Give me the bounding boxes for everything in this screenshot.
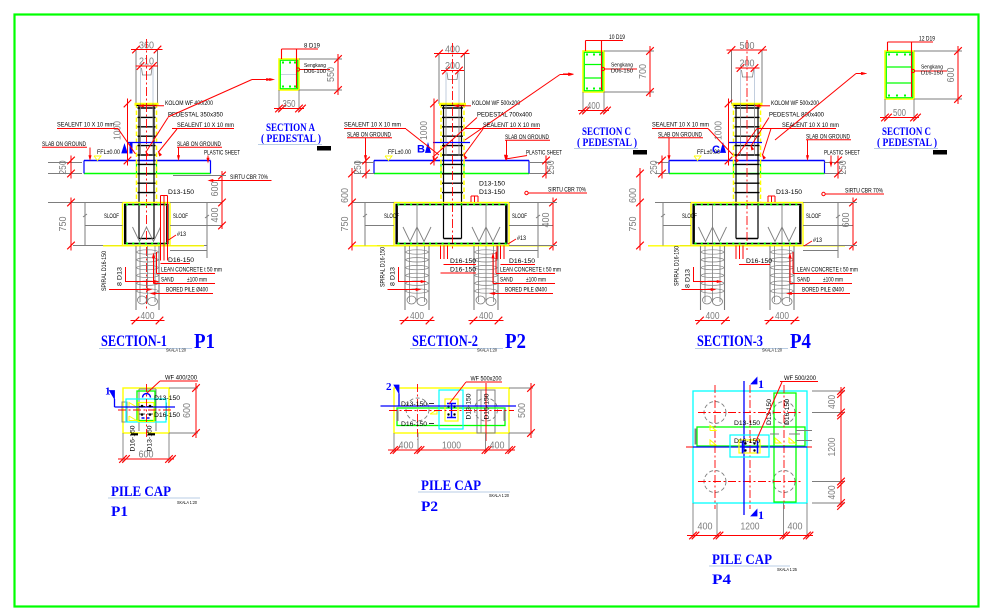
svg-text:SECTION-2: SECTION-2 [412, 333, 478, 350]
svg-text:SLOOF: SLOOF [384, 213, 399, 220]
svg-text:±100 mm: ±100 mm [526, 277, 546, 284]
svg-text:SEALENT 10 X 10 mm: SEALENT 10 X 10 mm [57, 122, 114, 129]
svg-text:#13: #13 [177, 231, 186, 238]
svg-text:250: 250 [353, 160, 364, 174]
svg-text:400: 400 [399, 441, 414, 452]
svg-text:WF 500/200: WF 500/200 [784, 375, 816, 382]
svg-text:BORED PILE Ø400: BORED PILE Ø400 [802, 287, 844, 294]
svg-text:BORED PILE Ø400: BORED PILE Ø400 [166, 287, 208, 294]
svg-text:P4: P4 [790, 329, 811, 353]
svg-text:8 D19: 8 D19 [304, 44, 321, 50]
svg-text:350: 350 [283, 99, 296, 110]
svg-text:P2: P2 [505, 329, 526, 353]
svg-text:1: 1 [758, 377, 764, 391]
svg-text:LEAN CONCRETE t 50 mm: LEAN CONCRETE t 50 mm [500, 267, 561, 274]
svg-text:SLOOF: SLOOF [806, 213, 821, 220]
svg-text:( PEDESTAL ): ( PEDESTAL ) [261, 133, 321, 145]
svg-text:500: 500 [517, 403, 528, 418]
svg-text:BORED PILE Ø400: BORED PILE Ø400 [505, 287, 547, 294]
svg-text:8 D13: 8 D13 [390, 267, 397, 286]
svg-text:D13-150: D13-150 [766, 399, 773, 425]
svg-text:D06-150: D06-150 [611, 69, 633, 75]
svg-text:SKALA 1:20: SKALA 1:20 [166, 348, 186, 353]
svg-text:D16-150: D16-150 [509, 258, 535, 265]
svg-text:SKALA 1:20: SKALA 1:20 [177, 500, 197, 505]
svg-text:SLOOF: SLOOF [512, 213, 527, 220]
svg-text:400: 400 [490, 441, 505, 452]
svg-text:SKALA 1:20: SKALA 1:20 [477, 348, 497, 353]
svg-text:750: 750 [58, 216, 69, 231]
svg-text:1000: 1000 [419, 121, 430, 140]
svg-text:1000: 1000 [442, 441, 461, 452]
svg-text:WF 500x200: WF 500x200 [471, 376, 502, 383]
svg-text:LEAN CONCRETE t 50 mm: LEAN CONCRETE t 50 mm [161, 267, 222, 274]
svg-text:1200: 1200 [827, 437, 838, 456]
svg-text:400: 400 [410, 311, 424, 322]
svg-text:600: 600 [340, 188, 351, 203]
svg-text:10 D19: 10 D19 [609, 35, 626, 41]
svg-text:#13: #13 [517, 235, 526, 242]
svg-text:D13-150: D13-150 [401, 401, 427, 408]
svg-text:±100 mm: ±100 mm [187, 277, 207, 284]
svg-text:SECTION-1: SECTION-1 [101, 333, 167, 350]
svg-text:SAND: SAND [797, 277, 810, 284]
svg-text:SLOOF: SLOOF [682, 213, 697, 220]
svg-text:SAND: SAND [500, 277, 513, 284]
svg-text:400: 400 [827, 395, 838, 409]
svg-text:D13-150: D13-150 [168, 189, 194, 196]
svg-text:D16-150: D16-150 [450, 258, 476, 265]
svg-text:D16-150: D16-150 [154, 412, 180, 419]
svg-text:750: 750 [628, 216, 639, 231]
svg-text:400: 400 [141, 311, 155, 322]
svg-text:SEALENT 10 X 10 mm: SEALENT 10 X 10 mm [483, 122, 540, 129]
svg-text:D13-150: D13-150 [147, 425, 154, 451]
svg-text:8 D13: 8 D13 [685, 269, 692, 288]
svg-text:PLASTIC SHEET: PLASTIC SHEET [526, 150, 562, 157]
svg-text:PLASTIC SHEET: PLASTIC SHEET [204, 150, 240, 157]
svg-text:D16-150: D16-150 [746, 258, 772, 265]
svg-text:600: 600 [946, 67, 957, 82]
svg-text:D16-150: D16-150 [130, 425, 137, 451]
svg-text:KOLOM WF 500x200: KOLOM WF 500x200 [472, 100, 520, 107]
svg-text:SLOOF: SLOOF [173, 213, 188, 220]
svg-text:600: 600 [628, 188, 639, 203]
svg-text:SIRTU CBR 70%: SIRTU CBR 70% [548, 187, 586, 194]
svg-text:SPIRAL D16-150: SPIRAL D16-150 [380, 247, 387, 287]
svg-text:PEDESTAL 350x350: PEDESTAL 350x350 [168, 112, 223, 119]
svg-text:600: 600 [210, 181, 221, 196]
svg-text:D16-150: D16-150 [784, 399, 791, 425]
svg-text:400: 400 [541, 212, 552, 227]
svg-text:D16-150: D16-150 [484, 393, 491, 419]
svg-text:8 D13: 8 D13 [117, 267, 124, 286]
svg-text:600: 600 [139, 450, 154, 461]
svg-text:250: 250 [649, 160, 660, 174]
svg-text:PEDESTAL 800x400: PEDESTAL 800x400 [769, 112, 824, 119]
svg-text:D13-150: D13-150 [479, 189, 505, 196]
svg-text:D16-150: D16-150 [168, 257, 194, 264]
svg-text:( PEDESTAL ): ( PEDESTAL ) [877, 137, 937, 149]
svg-text:SLOOF: SLOOF [104, 213, 119, 220]
svg-text:SEALENT 10 X 10 mm: SEALENT 10 X 10 mm [177, 122, 234, 129]
svg-text:LEAN CONCRETE t 50 mm: LEAN CONCRETE t 50 mm [797, 267, 858, 274]
svg-text:SKALA 1:20: SKALA 1:20 [489, 493, 509, 498]
svg-text:( PEDESTAL ): ( PEDESTAL ) [577, 137, 637, 149]
svg-text:D13-150: D13-150 [776, 189, 802, 196]
svg-text:600: 600 [841, 212, 852, 227]
svg-text:KOLOM WF 400/200: KOLOM WF 400/200 [165, 100, 213, 107]
svg-text:SEALENT 10 X 10 mm: SEALENT 10 X 10 mm [344, 122, 401, 129]
svg-text:SPIRAL D16-150: SPIRAL D16-150 [101, 251, 108, 291]
svg-text:SKALA 1:20: SKALA 1:20 [762, 348, 782, 353]
svg-text:FFL±0.00: FFL±0.00 [97, 149, 120, 156]
svg-text:D13-150: D13-150 [734, 420, 760, 427]
svg-text:D13-150: D13-150 [154, 395, 180, 402]
svg-text:WF 400/200: WF 400/200 [165, 375, 197, 382]
svg-text:SIRTU CBR 70%: SIRTU CBR 70% [845, 188, 883, 195]
svg-text:400: 400 [775, 311, 789, 322]
svg-text:FFL±0.00: FFL±0.00 [697, 149, 720, 156]
svg-text:SAND: SAND [161, 277, 174, 284]
svg-text:700: 700 [638, 64, 649, 79]
svg-text:400: 400 [479, 311, 493, 322]
svg-text:P4: P4 [712, 572, 731, 588]
svg-text:2: 2 [386, 381, 392, 393]
svg-text:±100 mm: ±100 mm [823, 277, 843, 284]
svg-text:400: 400 [788, 522, 803, 533]
svg-text:KOLOM WF 500x200: KOLOM WF 500x200 [771, 100, 819, 107]
svg-text:FFL±0.00: FFL±0.00 [388, 149, 411, 156]
svg-text:P1: P1 [111, 504, 128, 520]
svg-text:1200: 1200 [741, 522, 760, 533]
svg-text:SECTION-3: SECTION-3 [697, 333, 763, 350]
svg-text:600: 600 [182, 403, 193, 418]
svg-text:400: 400 [827, 485, 838, 499]
svg-text:SIRTU CBR 70%: SIRTU CBR 70% [230, 174, 268, 181]
svg-text:SKALA 1:25: SKALA 1:25 [777, 567, 797, 572]
svg-text:500: 500 [893, 108, 906, 119]
svg-text:12 D19: 12 D19 [919, 37, 936, 43]
svg-text:B: B [417, 144, 425, 156]
svg-text:PLASTIC SHEET: PLASTIC SHEET [824, 150, 860, 157]
svg-text:250: 250 [838, 160, 849, 174]
svg-text:#13: #13 [813, 237, 822, 244]
svg-text:P2: P2 [421, 499, 438, 515]
svg-text:400: 400 [587, 101, 600, 112]
svg-text:1000: 1000 [113, 121, 124, 140]
svg-text:D16-150: D16-150 [401, 421, 427, 428]
svg-text:400: 400 [698, 522, 713, 533]
svg-text:D13-150: D13-150 [466, 393, 473, 419]
svg-text:P1: P1 [194, 329, 215, 353]
svg-text:SEALENT 10 X 10 mm: SEALENT 10 X 10 mm [652, 122, 709, 129]
svg-text:D16-150: D16-150 [450, 267, 476, 274]
svg-text:400: 400 [210, 207, 221, 222]
svg-text:550: 550 [326, 67, 337, 82]
svg-text:750: 750 [340, 216, 351, 231]
svg-text:SPIRAL D16-150: SPIRAL D16-150 [674, 246, 681, 286]
svg-text:400: 400 [706, 311, 720, 322]
svg-text:D13-150: D13-150 [479, 181, 505, 188]
svg-text:SEALENT 10 X 10 mm: SEALENT 10 X 10 mm [782, 122, 839, 129]
svg-text:250: 250 [58, 160, 69, 174]
svg-text:1000: 1000 [714, 121, 725, 140]
svg-text:D16-150: D16-150 [921, 71, 943, 77]
svg-text:D06-100: D06-100 [304, 69, 326, 75]
svg-text:1: 1 [758, 508, 764, 522]
svg-text:250: 250 [546, 160, 557, 174]
